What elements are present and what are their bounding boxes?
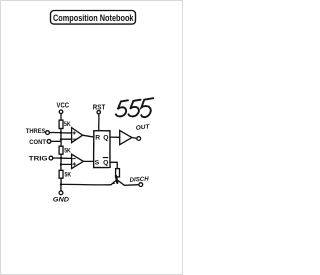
wire Qbar to base resistor R4 <box>110 162 117 168</box>
page edge <box>1 1 183 275</box>
junction dot 1/3Vcc node <box>60 163 62 165</box>
transistor Q1 emitter arrowhead <box>111 181 115 184</box>
wire R3 to GND <box>60 178 62 191</box>
svg-text:VCC: VCC <box>57 102 70 109</box>
U2 plus input mark <box>73 163 75 165</box>
op-amp comparator U2 (trigger) <box>72 154 84 168</box>
svg-text:OUT: OUT <box>136 123 151 132</box>
wire TRIG to comparator U2 - input <box>53 157 72 159</box>
resistor R2 body <box>59 146 63 154</box>
junction dot THRES node <box>60 132 62 134</box>
svg-text:Q: Q <box>103 159 108 166</box>
wire 1/3Vcc node to comparator U2 + input <box>61 163 71 165</box>
transistor Q1 emitter <box>111 180 116 184</box>
op-amp comparator U1 (threshold) <box>72 128 83 143</box>
junction dot emitter/GND node <box>60 183 62 185</box>
junction dot TRIG crossing <box>60 157 62 159</box>
THRES terminal circle <box>46 131 50 135</box>
wire THRES to comparator U1 + input <box>50 132 72 134</box>
wire RST to flip-flop <box>98 114 100 131</box>
wire rail to comparator U1 - input <box>61 138 71 140</box>
svg-text:S: S <box>95 159 100 166</box>
wire CONT to rail <box>51 140 61 142</box>
VCC terminal circle <box>59 110 63 114</box>
wire emitter to GND rail <box>61 183 111 186</box>
DISCH terminal circle <box>139 183 143 187</box>
transistor Q1 collector <box>117 180 139 185</box>
TRIG terminal circle <box>49 156 53 160</box>
wire R1 to R2 (node 2/3 Vcc) <box>60 129 62 147</box>
wire R2 to R3 <box>60 154 62 170</box>
svg-text:Composition Notebook: Composition Notebook <box>53 12 134 23</box>
svg-text:R: R <box>95 135 100 142</box>
resistor R1 body <box>59 120 63 128</box>
svg-text:5K: 5K <box>64 121 71 128</box>
buffer U3 <box>120 131 132 145</box>
svg-text:5K: 5K <box>65 172 72 179</box>
svg-text:5K: 5K <box>64 148 71 155</box>
wire U3 output to OUT <box>132 137 137 140</box>
svg-text:DISCH: DISCH <box>129 176 149 184</box>
svg-text:GND: GND <box>53 196 69 203</box>
wire R4 to transistor base <box>116 177 118 179</box>
svg-text:Q: Q <box>103 135 108 142</box>
wire U2 output to flip-flop S <box>83 160 93 162</box>
GND terminal circle <box>59 191 63 195</box>
wire VCC to R1 <box>60 114 62 121</box>
svg-text:TRIG: TRIG <box>29 156 48 163</box>
U2 minus input mark <box>73 158 75 160</box>
resistor R4 body <box>116 169 120 177</box>
flip-flop U4 box <box>94 131 110 168</box>
wire Q to buffer U3 <box>110 136 120 138</box>
title box <box>51 11 136 25</box>
U1 minus input mark <box>73 138 75 140</box>
transistor Q1 base bar <box>116 176 117 183</box>
resistor R3 body <box>59 170 63 178</box>
svg-text:THRES: THRES <box>26 128 46 135</box>
wire U1 output to flip-flop R <box>83 135 94 137</box>
RST terminal circle <box>97 111 100 114</box>
junction dot CONT node <box>60 138 62 140</box>
U1 plus input mark <box>73 132 75 134</box>
svg-text:CONT: CONT <box>29 139 46 146</box>
OUT terminal circle <box>137 137 141 141</box>
CONT terminal circle <box>47 140 51 144</box>
Qbar overline <box>103 157 108 159</box>
label 555 <box>116 98 153 117</box>
